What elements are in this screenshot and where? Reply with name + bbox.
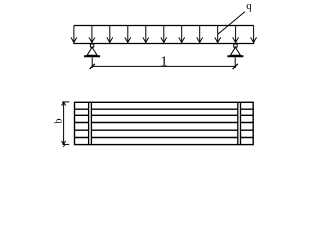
- plank line 5: [75, 137, 254, 139]
- svg-text:1: 1: [161, 55, 168, 70]
- svg-text:q: q: [246, 0, 252, 12]
- load arrow 7: [179, 26, 185, 43]
- plank line 4: [75, 129, 254, 131]
- top arrowhead: [62, 102, 66, 106]
- plank line 3: [75, 122, 254, 124]
- width dimension line b: [63, 102, 65, 145]
- right joint line 1: [237, 102, 239, 144]
- load arrow 2: [89, 26, 95, 43]
- bottom extension line: [62, 143, 69, 145]
- beam: [73, 43, 254, 45]
- plank line 2: [75, 114, 254, 116]
- span dimension line: [92, 65, 235, 67]
- left support pin square: [90, 44, 93, 47]
- right dimension tick: [233, 64, 238, 69]
- load arrow 10: [233, 26, 239, 43]
- right support pin square: [234, 44, 237, 47]
- plank line 1: [75, 108, 254, 110]
- load arrow 4: [125, 26, 131, 43]
- load arrow 11: [251, 26, 257, 43]
- load arrow 3: [107, 26, 113, 43]
- right extension line: [234, 57, 236, 68]
- right support ground line: [227, 55, 243, 57]
- bottom arrowhead overshoot: [63, 145, 64, 147]
- distributed load top line: [74, 25, 254, 27]
- bottom arrowhead: [62, 141, 66, 145]
- load arrow 1: [71, 26, 77, 43]
- plank board outline: [75, 102, 254, 144]
- top extension line: [62, 101, 69, 103]
- load arrow 5: [143, 26, 149, 43]
- load arrow 9: [215, 26, 221, 43]
- load arrow 8: [197, 26, 203, 43]
- right support triangle: [230, 47, 240, 55]
- left support triangle: [87, 47, 97, 55]
- load arrow 6: [161, 26, 167, 43]
- left dimension tick: [90, 64, 95, 69]
- right joint line 2: [240, 102, 242, 144]
- left support ground line: [84, 55, 100, 57]
- left joint line 1: [88, 102, 90, 144]
- svg-text:b: b: [54, 119, 65, 124]
- left extension line: [91, 57, 93, 68]
- leader line to q: [218, 12, 245, 34]
- left joint line 2: [90, 102, 92, 144]
